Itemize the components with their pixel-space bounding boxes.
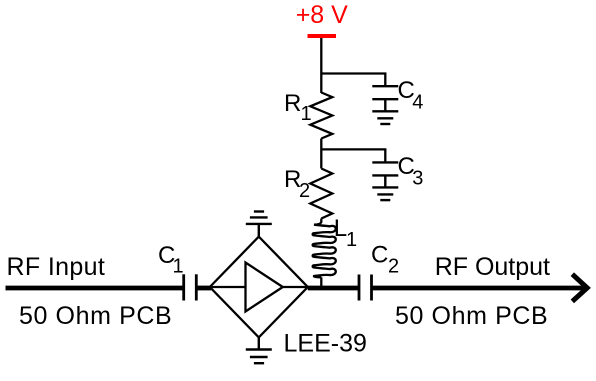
wire: RF input trace <box>6 286 183 291</box>
wire: +8V bar down to R1 <box>320 38 322 93</box>
capacitor C1 <box>184 274 197 300</box>
svg-text:50 Ohm PCB: 50 Ohm PCB <box>395 302 548 330</box>
label L1 <box>334 215 357 251</box>
resistor R2 <box>310 169 332 219</box>
wire: amplifier to C2 <box>308 286 359 291</box>
label C2 <box>371 242 399 278</box>
wire: amp output inside diamond <box>283 286 308 288</box>
ground (amp bottom) <box>246 337 272 363</box>
label C4 <box>398 77 424 113</box>
ground (C3) <box>372 187 398 200</box>
capacitor C4 <box>372 86 398 111</box>
wire: amp input inside diamond <box>210 286 246 288</box>
wire: RF output trace <box>372 286 586 291</box>
svg-text:1: 1 <box>173 256 184 278</box>
svg-text:1: 1 <box>346 229 357 251</box>
wire: L1 to output line <box>320 277 322 289</box>
svg-text:3: 3 <box>412 168 423 190</box>
svg-text:C: C <box>371 242 388 269</box>
capacitor C3 <box>372 162 398 187</box>
label R2 <box>284 166 310 202</box>
svg-text:2: 2 <box>388 256 399 278</box>
svg-text:50 Ohm PCB: 50 Ohm PCB <box>19 302 172 330</box>
wire: C1 to amplifier <box>196 286 211 291</box>
svg-text:+8 V: +8 V <box>296 1 348 29</box>
svg-text:RF Output: RF Output <box>435 253 550 281</box>
wire: R2 to L1 <box>320 219 322 223</box>
ground (C4) <box>372 111 398 124</box>
capacitor C2 <box>359 275 372 301</box>
ground (amp top) <box>246 212 272 238</box>
svg-text:RF Input: RF Input <box>7 253 106 281</box>
svg-text:1: 1 <box>301 103 312 125</box>
wire: output arrowhead <box>572 274 587 301</box>
svg-text:LEE-39: LEE-39 <box>284 330 367 358</box>
svg-text:4: 4 <box>412 92 423 114</box>
op-amp U1 triangle <box>246 263 283 312</box>
op-amp U1 (LEE-39) diamond body <box>210 237 308 338</box>
wire: junction to C3 <box>321 149 385 162</box>
resistor R1 <box>310 93 332 139</box>
label R1 <box>284 90 312 125</box>
svg-text:R: R <box>284 90 301 117</box>
wire: junction to C4 <box>321 74 385 87</box>
inductor L1 <box>313 222 336 277</box>
wire: R1 to R2 <box>320 139 322 169</box>
label C3 <box>398 153 424 189</box>
label C1 <box>158 242 184 278</box>
+8V supply rail bar <box>308 34 337 38</box>
svg-text:2: 2 <box>299 180 310 202</box>
